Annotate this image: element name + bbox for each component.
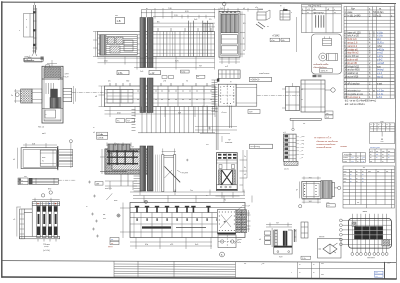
- svg-text:▪▪: ▪▪: [86, 206, 88, 208]
- svg-text:▪▪▪▪: ▪▪▪▪: [368, 171, 371, 173]
- svg-text:▪▪: ▪▪: [299, 273, 301, 275]
- svg-text:▪▪▪: ▪▪▪: [111, 239, 113, 241]
- svg-text:▪▪▪: ▪▪▪: [382, 158, 384, 160]
- svg-text:▪▪▪: ▪▪▪: [363, 168, 365, 170]
- svg-text:▪12▪: ▪12▪: [65, 77, 69, 79]
- svg-text:▪▪: ▪▪: [299, 264, 301, 266]
- svg-text:▪▪: ▪▪: [376, 158, 378, 160]
- svg-text:▪▪: ▪▪: [382, 154, 384, 156]
- svg-text:1:5▪: 1:5▪: [302, 258, 306, 260]
- svg-text:▪▪: ▪▪: [362, 171, 364, 173]
- svg-text:▪▪: ▪▪: [362, 181, 364, 183]
- svg-text:▪▪▪: ▪▪▪: [388, 151, 390, 153]
- svg-text:—▪▪▪▪: —▪▪▪▪: [300, 137, 305, 139]
- svg-text:▪5▪: ▪5▪: [199, 65, 202, 67]
- svg-text:▪▪▪▪: ▪▪▪▪: [344, 178, 347, 180]
- svg-text:4▪: 4▪: [296, 190, 298, 192]
- svg-text:▪▪▪: ▪▪▪: [111, 243, 113, 245]
- svg-text:▪▪▪▪▪·1:2▪: ▪▪▪▪▪·1:2▪: [242, 205, 250, 207]
- svg-text:▪s▪▪▪▪▪▪▪.▪▪▪ ▪▪▪▪▪1▪▪-▪▪▪: ▪s▪▪▪▪▪▪▪.▪▪▪ ▪▪▪▪▪1▪▪-▪▪▪: [317, 141, 339, 143]
- svg-text:▪▪▪▪: ▪▪▪▪: [344, 171, 347, 173]
- svg-text:7▪▪: 7▪▪: [190, 190, 193, 192]
- svg-text:▪▪: ▪▪: [313, 264, 315, 266]
- svg-text:▪▪▪▪▪▪: ▪▪▪▪▪▪: [343, 158, 348, 160]
- svg-text:▪▪: ▪▪: [313, 273, 315, 275]
- svg-text:re.: re.: [379, 7, 382, 10]
- svg-text:▪▪▪: ▪▪▪: [357, 203, 359, 205]
- svg-text:▪▪▪▪▪: ▪▪▪▪▪: [44, 246, 48, 249]
- svg-text:s▪▪: s▪▪: [115, 15, 118, 17]
- svg-text:▪▪▪: ▪▪▪: [303, 124, 305, 126]
- svg-text:—▪s▪: —▪s▪: [300, 140, 305, 142]
- svg-text:15▪5.7▪: 15▪5.7▪: [321, 71, 328, 73]
- svg-text:▪▪▪: ▪▪▪: [386, 171, 388, 173]
- svg-text:(1:2): (1:2): [284, 168, 289, 170]
- svg-text:2▪: 2▪: [11, 95, 13, 97]
- svg-text:▪.▪▪: ▪.▪▪: [362, 161, 365, 163]
- svg-text:▪▪: ▪▪: [362, 178, 364, 180]
- svg-text:▪▪: ▪▪: [356, 175, 358, 177]
- svg-text:▪▪▪▪▪▪▪▪▪▪.▪▪▪▪▪▪s▪▪▪▪▪: ▪▪▪▪▪▪▪▪▪▪.▪▪▪▪▪▪s▪▪▪▪▪: [317, 144, 336, 146]
- svg-text:▪s▪▪▪1▪▪▪▪s▪: ▪s▪▪▪1▪▪▪▪s▪: [259, 73, 270, 75]
- svg-text:s·set: s·set: [377, 83, 382, 86]
- svg-text:▪ss▪▪▪s▪▪v▪: ▪ss▪▪▪s▪▪v▪: [313, 11, 324, 14]
- svg-text:▪▪: ▪▪: [381, 137, 383, 141]
- svg-text:▪▪: ▪▪: [93, 127, 95, 129]
- svg-text:5Y▪A▪: 5Y▪A▪: [97, 133, 103, 136]
- svg-text:▪1▪: ▪1▪: [255, 7, 258, 9]
- svg-text:▪▪: ▪▪: [350, 175, 352, 177]
- svg-text:▪▪: ▪▪: [362, 175, 364, 177]
- svg-text:▪▪▪▪▪▪▪▪: ▪▪▪▪▪▪▪▪: [341, 146, 348, 148]
- svg-text:▪2▪▪: ▪2▪▪: [249, 112, 253, 114]
- svg-text:52▪: 52▪: [178, 113, 181, 115]
- svg-text:▪▪: ▪▪: [307, 11, 309, 14]
- svg-text:▪▪: ▪▪: [280, 6, 282, 8]
- svg-text:s▪▪▪▪: s▪▪▪▪: [65, 74, 69, 76]
- svg-text:4▪: 4▪: [244, 167, 246, 169]
- svg-text:▪▪▪▪: ▪▪▪▪: [321, 274, 324, 276]
- svg-text:▪▪: ▪▪: [334, 11, 336, 14]
- svg-text:▪▪: ▪▪: [388, 154, 390, 156]
- svg-text:▪.▪▪: ▪.▪▪: [351, 158, 354, 160]
- svg-text:▪1▪: ▪1▪: [127, 121, 130, 123]
- svg-text:sPcl·anchor: sPcl·anchor: [347, 83, 359, 86]
- svg-text:1.▪▪: 1.▪▪: [362, 158, 365, 160]
- svg-text:34▪: 34▪: [32, 143, 35, 145]
- svg-text:▪▪▪: ▪▪▪: [344, 175, 346, 177]
- svg-text:▪▪: ▪▪: [350, 178, 352, 180]
- svg-text:fr-16L L=340: fr-16L L=340: [347, 14, 361, 17]
- svg-text:▪s▪: ▪s▪: [326, 113, 329, 115]
- svg-text:▪▪▪: ▪▪▪: [344, 181, 346, 183]
- svg-text:1B▪: 1B▪: [96, 183, 100, 185]
- svg-text:▪▪1▪: ▪▪1▪: [238, 242, 242, 244]
- svg-text:▪8▪: ▪8▪: [282, 40, 285, 42]
- svg-text:▪s1▪▪▪: ▪s1▪▪▪: [114, 144, 120, 146]
- svg-text:▪▪▪: ▪▪▪: [376, 273, 378, 275]
- svg-text:▪▪: ▪▪: [230, 82, 232, 84]
- svg-text:▪▪▪: ▪▪▪: [197, 77, 199, 79]
- svg-text:▪2▪: ▪2▪: [276, 223, 279, 225]
- svg-text:▪▪: ▪▪: [206, 195, 208, 197]
- svg-text:▪▪: ▪▪: [357, 158, 359, 160]
- svg-text:▪▪: ▪▪: [357, 161, 359, 163]
- svg-text:—▪▪▪: —▪▪▪: [300, 154, 305, 156]
- svg-text:▪Y1842: ▪Y1842: [272, 35, 280, 37]
- svg-text:▪▪s▪12▪: ▪▪s▪12▪: [105, 188, 112, 190]
- svg-text:▪▪▪▪▪▪▪▪▪▪: ▪▪▪▪▪▪▪▪▪▪: [367, 258, 375, 260]
- svg-text:▪▪▪: ▪▪▪: [244, 264, 246, 266]
- svg-text:▪7▪▪: ▪7▪▪: [271, 40, 275, 42]
- svg-text:▪▪s: ▪▪s: [206, 144, 209, 146]
- svg-text:45▪: 45▪: [145, 244, 148, 246]
- svg-text:+▪▪▪: +▪▪▪: [261, 264, 265, 266]
- svg-text:▪▪▪▪8▪▪▪▪s: ▪▪▪▪8▪▪▪▪s: [251, 146, 261, 149]
- svg-text:2-B▪: 2-B▪: [118, 72, 123, 75]
- svg-text:▪▪: ▪▪: [146, 8, 148, 10]
- svg-text:▪▪5▪8▪▪2▪: ▪▪5▪8▪▪2▪: [251, 79, 260, 82]
- svg-text:▪▪▪: ▪▪▪: [103, 214, 106, 216]
- svg-text:▪▪: ▪▪: [356, 178, 358, 180]
- svg-text:mc-r2: mc-r2: [377, 76, 384, 79]
- svg-text:3▪: 3▪: [243, 50, 245, 52]
- svg-text:▪▪(1:2): ▪▪(1:2): [38, 127, 44, 129]
- svg-text:a.01: a.01: [377, 14, 382, 17]
- svg-text:▪▪▪▪▪: ▪▪▪▪▪: [363, 210, 368, 213]
- svg-text:▪▪▪▪▪: ▪▪▪▪▪: [343, 161, 347, 163]
- svg-text:▪4▪: ▪4▪: [228, 140, 231, 142]
- svg-text:e-8.1: e-8.1: [377, 96, 383, 99]
- svg-text:▪s▪▪▪▪▪▪▪: ▪s▪▪▪▪▪▪▪: [225, 142, 233, 144]
- svg-text:▪▪▪▪: ▪▪▪▪: [321, 263, 324, 265]
- svg-text:—▪▪▪: —▪▪▪: [300, 147, 305, 149]
- svg-text:▪▪▪▪: ▪▪▪▪: [381, 142, 384, 144]
- svg-text:▪▪▪▪▪▪▪▪▪2.▪▪▪▪▪▪▪: ▪▪▪▪▪▪▪▪▪2.▪▪▪▪▪▪▪: [317, 147, 332, 149]
- svg-text:▪▪1▪▪▪▪▪▪: ▪▪1▪▪▪▪▪▪: [24, 60, 32, 62]
- svg-text:1-B: 1-B: [117, 19, 121, 23]
- svg-text:1▪: 1▪: [244, 156, 246, 158]
- svg-text:▪1▪s▪▪: ▪1▪s▪▪: [222, 112, 227, 114]
- svg-text:▪▪▪: ▪▪▪: [376, 276, 378, 278]
- svg-text:▪▪▪s▪▪▪▪: ▪▪▪s▪▪▪▪: [182, 173, 189, 175]
- svg-text:(▪-1:2▪): (▪-1:2▪): [43, 250, 50, 252]
- svg-text:▪▪s▪: ▪▪s▪: [42, 157, 46, 159]
- svg-text:※2 : s▪2 ss·s 00▪2.v.: ※2 : s▪2 ss·s 00▪2.v.: [345, 102, 366, 106]
- svg-text:12▪0B: 12▪0B: [97, 138, 103, 140]
- svg-text:▪▪▪: ▪▪▪: [376, 154, 378, 156]
- svg-text:▪▪▪: ▪▪▪: [376, 151, 378, 153]
- svg-text:▪▪: ▪▪: [356, 171, 358, 173]
- svg-text:A3▪: A3▪: [388, 262, 392, 265]
- svg-text:▪▪: ▪▪: [350, 181, 352, 183]
- svg-text:▪2▪: ▪2▪: [131, 147, 134, 149]
- svg-text:▪▪: ▪▪: [370, 154, 372, 156]
- svg-text:▪▪: ▪▪: [382, 161, 384, 163]
- svg-text:▪▪: ▪▪: [370, 158, 372, 160]
- svg-text:▪-12: ▪-12: [150, 72, 155, 75]
- svg-text:▪▪: ▪▪: [356, 181, 358, 183]
- svg-text:—▪▪: —▪▪: [300, 158, 304, 160]
- svg-text:nut·w M16: nut·w M16: [347, 76, 358, 79]
- svg-text:▪▪: ▪▪: [388, 158, 390, 160]
- svg-text:▪▪▪ ▪▪s▪▪▪▪▪▪▪ ▪▪7.▪▪: ▪▪▪ ▪▪s▪▪▪▪▪▪▪ ▪▪7.▪▪: [314, 138, 332, 140]
- svg-text:▪▪s▪: ▪▪s▪: [114, 200, 118, 202]
- svg-text:▪s▪: ▪s▪: [382, 151, 385, 153]
- svg-text:▪▪s▪1▪▪▪▪▪: ▪▪s▪1▪▪▪▪▪: [344, 154, 352, 156]
- svg-text:▪▪▪: ▪▪▪: [350, 171, 352, 173]
- svg-text:▪.▪▪: ▪.▪▪: [351, 161, 354, 163]
- svg-text:▪▪2▪: ▪▪2▪: [279, 257, 283, 259]
- svg-text:▪▪▪: ▪▪▪: [370, 161, 372, 163]
- svg-text:—▪▪: —▪▪: [300, 151, 304, 153]
- svg-text:▪s▪: ▪s▪: [103, 218, 106, 220]
- svg-text:▪▪▪: ▪▪▪: [377, 171, 379, 173]
- svg-text:▪▪▪▪▪▪: ▪▪▪▪▪▪: [108, 247, 113, 249]
- svg-text:▪▪▪: ▪▪▪: [327, 205, 329, 207]
